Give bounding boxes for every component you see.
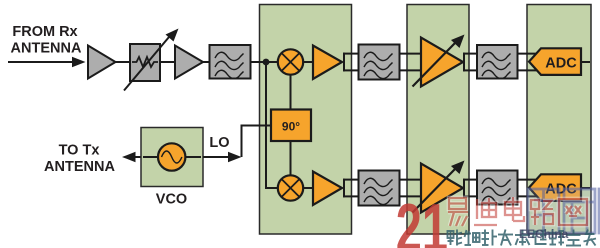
wire: VGA2 differential out	[463, 179, 478, 198]
label FROM Rx ANTENNA	[11, 24, 82, 57]
VGA U1 (I path, orange with gain arrow)	[413, 35, 465, 87]
wire: ADC2 output	[581, 187, 590, 189]
baseband filter F4 (Q path)	[359, 171, 400, 206]
watermark red character dian	[505, 197, 524, 221]
wire F3 to ADC1 (differential)	[518, 54, 538, 71]
svg-text:21: 21	[396, 190, 448, 248]
svg-text:ANTENNA: ANTENNA	[44, 159, 115, 175]
ADC U4 (Q path)	[529, 174, 581, 201]
anti-alias filter F3 (I path)	[477, 45, 518, 79]
wire: LO feed with right arrow to 90deg splitter	[203, 126, 272, 163]
variable attenuator box	[124, 29, 179, 91]
wire: RF down-feed to mixer M2	[266, 62, 278, 188]
amplifier A3 (I path, orange)	[313, 46, 342, 80]
wire: A3 differential split	[343, 53, 359, 72]
anti-alias filter F5 (Q path)	[477, 171, 518, 205]
watermark red character di	[474, 198, 497, 225]
green block: quadrature demodulator section	[260, 5, 352, 235]
baseband filter F2 (I path)	[359, 45, 400, 80]
wire M1 to A3	[303, 61, 314, 63]
VCO box	[141, 128, 203, 187]
svg-text:FROM Rx: FROM Rx	[12, 24, 77, 40]
watermark red character wang	[559, 199, 587, 225]
watermark red character lu	[531, 200, 553, 225]
label TO Tx ANTENNA	[44, 143, 115, 176]
green block: VGA section	[407, 5, 469, 235]
wire F1 to mixer M1 with junction	[251, 61, 279, 63]
label VCO	[156, 192, 187, 208]
green block: ADC section	[527, 5, 591, 235]
wire: ADC1 output	[581, 61, 590, 63]
wire F5 to ADC2 (differential)	[518, 180, 538, 197]
wire F4 to VGA2 (differential)	[400, 180, 423, 197]
wire A1 to attenuator	[116, 61, 132, 63]
label LO	[209, 135, 229, 151]
wire: A4 differential split	[343, 179, 359, 198]
svg-text:90°: 90°	[282, 120, 300, 134]
mixer M2 (Q path)	[278, 175, 303, 200]
wire M2 to A4	[303, 187, 314, 189]
mixer M1 (I path)	[278, 49, 303, 74]
svg-text:TO Tx: TO Tx	[59, 143, 100, 159]
watermark red character yi	[448, 198, 468, 226]
wire F2 to VGA1 (differential)	[400, 54, 423, 71]
wire: VGA1 differential out	[463, 53, 478, 72]
watermark blue site characters	[528, 189, 600, 233]
wire: LO to mixer M1	[290, 75, 292, 110]
wire: RF input with arrow	[8, 57, 86, 67]
node: RF split junction	[263, 59, 270, 66]
90 degree phase splitter	[271, 110, 311, 142]
VGA U3 (Q path, orange with gain arrow)	[413, 161, 465, 213]
watermark teal tagline characters	[448, 230, 597, 246]
svg-text:VCO: VCO	[156, 192, 187, 208]
wire: LO to mixer M2	[290, 141, 292, 175]
svg-text:LO: LO	[209, 135, 229, 151]
watermark red 21	[396, 190, 448, 248]
svg-text:ANTENNA: ANTENNA	[11, 41, 82, 57]
watermark EEChina text	[519, 227, 569, 241]
wire A2 to RF filter	[203, 61, 210, 63]
svg-text:EEChina: EEChina	[519, 227, 569, 241]
wire attenuator to A2	[160, 61, 176, 63]
amplifier A1 (LNA, gray)	[88, 46, 116, 79]
amplifier A4 (Q path, orange)	[313, 172, 342, 206]
amplifier A2 (gray)	[175, 46, 203, 79]
wire: VCO to Tx antenna with left arrow	[122, 152, 142, 162]
RF band filter F1	[210, 45, 251, 79]
ADC U2 (I path)	[529, 48, 581, 75]
svg-text:ADC: ADC	[545, 56, 577, 72]
